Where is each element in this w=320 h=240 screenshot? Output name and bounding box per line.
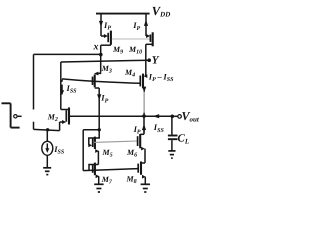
ground (M8) xyxy=(141,184,150,192)
transistor M3 xyxy=(93,72,101,88)
junction dot M6/M4 riser on rail xyxy=(142,114,146,118)
svg-text:IP: IP xyxy=(132,20,140,32)
tick at gate line left end xyxy=(61,80,63,82)
svg-text:M8: M8 xyxy=(126,175,137,186)
ground (CL) xyxy=(168,151,175,158)
wire x-dot down to M3 source xyxy=(100,45,102,72)
svg-text:IP – ISS: IP – ISS xyxy=(148,72,174,84)
svg-text:M3: M3 xyxy=(101,64,112,75)
current arrow Ip (down, on M3 drain riser) xyxy=(97,94,101,100)
svg-text:M2: M2 xyxy=(47,112,58,123)
diode chain junction dot xyxy=(98,128,101,131)
node x dot xyxy=(99,53,103,57)
Vout rail (M2 gate to Vout) xyxy=(70,115,173,117)
transistor M9 xyxy=(101,31,111,46)
wire node x vertical lower xyxy=(33,122,35,130)
svg-text:M6: M6 xyxy=(126,148,137,159)
gate line M7-M8 xyxy=(83,169,138,171)
svg-text:M7: M7 xyxy=(101,175,113,186)
current arrow Iss (down, annotation left) xyxy=(60,85,64,96)
ground (tail) xyxy=(43,168,51,175)
svg-text:IP: IP xyxy=(133,124,141,136)
svg-text:M5: M5 xyxy=(102,148,113,159)
transistor M2 xyxy=(60,62,69,131)
M5 diode jog with arrow xyxy=(88,130,99,148)
wire chain top horizontal xyxy=(83,129,99,131)
gate line M9-M10 (faint) xyxy=(112,38,150,40)
VDD rail xyxy=(96,13,150,15)
svg-text:M10: M10 xyxy=(128,45,142,56)
transistor M7 xyxy=(93,163,100,185)
svg-text:M9: M9 xyxy=(112,45,123,56)
wire riser B (Ip into M10) xyxy=(145,14,147,36)
Vout tap dot xyxy=(171,115,175,119)
wire node x horizontal xyxy=(34,53,101,55)
gate line M3-M4 xyxy=(62,79,140,83)
transistor M10 xyxy=(146,32,153,60)
ground (M7) xyxy=(94,184,103,192)
svg-text:IP: IP xyxy=(103,20,111,32)
svg-text:x: x xyxy=(93,41,99,52)
svg-text:Vout: Vout xyxy=(182,109,200,124)
svg-text:CL: CL xyxy=(178,133,190,146)
wire chain mid horizontal (M5 src - M7 drain) xyxy=(89,165,98,171)
svg-text:ISS: ISS xyxy=(53,144,65,156)
current source Iss (tail) xyxy=(42,130,53,168)
wire riser A (Ip into M9) xyxy=(100,14,102,36)
transistor M6 xyxy=(138,116,145,163)
svg-text:ISS: ISS xyxy=(153,122,165,134)
svg-text:VDD: VDD xyxy=(152,4,170,19)
transistor M1 (partial, left edge) xyxy=(2,103,22,127)
current arrow Ip (up, on riser B) xyxy=(144,20,148,26)
transistor M4 xyxy=(140,60,147,116)
current arrow Ip (up, on M6 drain riser) xyxy=(142,124,146,130)
junction dot (tail) xyxy=(46,128,49,131)
capacitor CL xyxy=(168,116,178,151)
svg-text:M4: M4 xyxy=(124,68,135,79)
wire bottom (x to M2 source) xyxy=(34,129,60,130)
svg-text:ISS: ISS xyxy=(66,83,78,95)
Vout terminal ring xyxy=(178,115,182,119)
transistor M5 xyxy=(93,137,99,165)
svg-text:IP: IP xyxy=(100,93,108,105)
current arrow Ip (down, on riser A) xyxy=(99,21,103,27)
M3 drain jog + riser xyxy=(95,88,100,130)
current arrow Ip-Iss (down, on M4 drain) xyxy=(142,87,146,93)
wire node x vertical upper xyxy=(33,54,35,109)
transistor M8 xyxy=(138,162,146,185)
node Y rail xyxy=(61,60,149,62)
wire chain left vertical xyxy=(82,130,84,171)
gate line M5-M6 (faint) xyxy=(94,141,138,142)
svg-text:Y: Y xyxy=(152,54,160,66)
current arrow Iss (left, on Vout rail) xyxy=(153,114,160,118)
node Y dot xyxy=(147,58,151,62)
